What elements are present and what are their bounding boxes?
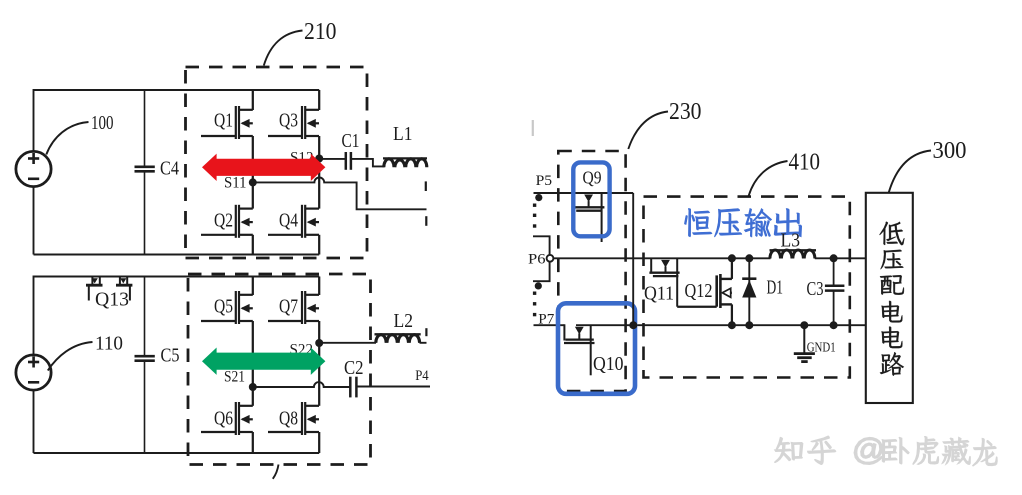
wire P5 line <box>534 192 634 194</box>
wire Q6 gate lead <box>201 431 236 433</box>
wire Q7 gate lead <box>268 320 302 322</box>
green bidirectional arrow <box>202 348 325 375</box>
svg-text:100: 100 <box>91 113 114 134</box>
label C4 <box>160 159 179 180</box>
label 230 <box>669 98 702 125</box>
diode D1 <box>742 258 756 325</box>
svg-text:C5: C5 <box>161 346 180 367</box>
label Q4 <box>279 210 298 232</box>
label Q13 <box>95 289 129 311</box>
wire Q6 drain from node S21 <box>252 387 254 406</box>
label P7 <box>538 312 555 328</box>
red bidirectional arrow <box>202 154 325 181</box>
svg-text:Q2: Q2 <box>214 210 233 232</box>
svg-text:D1: D1 <box>767 278 784 299</box>
leader below box 220 <box>273 465 279 479</box>
node Q12 drain junction <box>728 254 736 262</box>
wire Q7 source to node S22 <box>318 321 320 343</box>
wire bottom rail upper loop <box>34 254 320 256</box>
svg-text:P4: P4 <box>415 368 429 384</box>
transformer tap bracket upper <box>533 236 550 255</box>
label 300 leader <box>889 151 931 193</box>
label L2 <box>394 311 414 332</box>
watermark zhihu <box>775 436 998 466</box>
wire Q8 drain from node S22 <box>318 343 320 406</box>
label C2 <box>344 358 364 379</box>
node S11 <box>249 178 257 186</box>
wire Q12 source <box>731 304 733 325</box>
wire Q2 source to bottom rail <box>252 235 254 255</box>
label Q10 <box>593 353 624 375</box>
svg-text:C2: C2 <box>344 358 364 379</box>
label P4 <box>415 368 429 384</box>
inductor L2 <box>375 334 427 343</box>
svg-text:Q4: Q4 <box>279 210 298 232</box>
node GND1 junction <box>800 321 808 329</box>
svg-text:C4: C4 <box>160 159 179 180</box>
wire Q2 gate lead <box>201 234 236 236</box>
ground GND1 <box>794 325 815 361</box>
svg-text:L2: L2 <box>394 311 414 332</box>
svg-text:C3: C3 <box>807 279 824 300</box>
label C1 <box>342 131 360 152</box>
wire Q6 source to bottom rail <box>252 432 254 453</box>
wire Q4 gate lead <box>268 234 302 236</box>
dashed box 410 <box>644 197 850 378</box>
label Q3 <box>279 110 298 132</box>
node L3 output junction <box>830 254 838 262</box>
node Q9-Q10 junction <box>629 321 637 329</box>
svg-text:C1: C1 <box>342 131 360 152</box>
transformer polarity dot upper <box>535 194 542 201</box>
wire Q5 gate lead <box>201 320 236 322</box>
label C5 <box>161 346 180 367</box>
transistor Q8 <box>302 402 319 435</box>
transistor Q4 <box>302 205 319 238</box>
label Q1 <box>214 110 233 132</box>
label Q5 <box>214 296 233 318</box>
label 110 <box>95 334 123 355</box>
label GND1 <box>807 340 836 355</box>
wire bottom rail lower loop <box>34 452 320 454</box>
wire Q1 gate lead <box>201 135 236 137</box>
wire Q10 drain corner <box>563 324 565 340</box>
wire Q12 drain <box>731 258 733 279</box>
wire P6 rail segment <box>553 257 770 259</box>
label L3 <box>781 231 801 252</box>
label 410 leader <box>749 161 788 196</box>
wire Q7 drain to rail <box>318 277 320 296</box>
blue highlight box around Q10 <box>558 303 635 394</box>
node C3 bottom junction <box>830 321 838 329</box>
node D1 cathode junction <box>745 254 753 262</box>
svg-text:Q3: Q3 <box>279 110 298 132</box>
svg-text:L3: L3 <box>781 231 801 252</box>
cropped label fragment P2 <box>425 216 427 226</box>
label constant voltage output (blue) <box>684 208 801 237</box>
label 300 <box>933 137 967 164</box>
box 300 <box>866 193 913 403</box>
node P6 tap circle <box>547 255 554 262</box>
label 100 <box>91 113 114 134</box>
label S21 <box>224 368 245 385</box>
svg-text:Q5: Q5 <box>214 296 233 318</box>
label 110 leader <box>48 342 93 371</box>
dashed box 230 <box>558 151 625 391</box>
scan artifact line <box>532 120 534 136</box>
dashed box 220 <box>188 274 371 465</box>
svg-text:P6: P6 <box>528 251 546 267</box>
label Q2 <box>214 210 233 232</box>
wire L3 to box 300 <box>815 257 866 259</box>
node D1 anode junction <box>745 321 753 329</box>
svg-text:Q13: Q13 <box>95 289 129 311</box>
transistor Q6 <box>236 402 253 435</box>
label L1 <box>393 124 413 145</box>
wire left branch lower (source 110 leads) <box>33 276 35 454</box>
transformer winding dots lower <box>533 292 536 317</box>
svg-text:300: 300 <box>933 137 967 164</box>
svg-text:Q6: Q6 <box>214 408 233 430</box>
node Q12 source junction <box>728 321 736 329</box>
label low-voltage distribution circuit (box 300 text) <box>879 222 904 376</box>
transistor Q1 <box>236 106 253 139</box>
label P6 <box>528 251 546 267</box>
capacitor C2 <box>350 377 430 398</box>
label 210 leader <box>264 31 303 66</box>
wire Q8 source to bottom rail <box>318 432 320 453</box>
capacitor C5 <box>135 277 155 454</box>
wire Q4 source to bottom rail <box>318 235 320 255</box>
wire S11 output with hop <box>253 177 427 209</box>
wire Q4 drain from node S12 <box>318 159 320 209</box>
svg-text:Q1: Q1 <box>214 110 233 132</box>
transistor Q10 <box>564 325 595 375</box>
svg-text:S21: S21 <box>224 368 245 385</box>
wire S21 to C2 with hop <box>253 382 350 387</box>
wire Q1 drain to rail <box>252 90 254 110</box>
wire Q2 drain from node S11 <box>252 182 254 208</box>
transistor Q13 <box>86 277 132 301</box>
inductor L1 <box>383 158 427 167</box>
wire Q5 drain to rail <box>252 277 254 296</box>
label C3 <box>807 279 824 300</box>
label Q6 <box>214 408 233 430</box>
label 230 leader <box>628 112 668 150</box>
label Q12 <box>685 280 713 302</box>
svg-text:110: 110 <box>95 334 123 355</box>
transformer polarity dot lower <box>535 282 542 289</box>
voltage source 110 <box>16 355 51 390</box>
wire P7 rail to box 300 <box>576 324 866 326</box>
transformer tap bracket lower <box>533 262 550 282</box>
transistor Q7 <box>302 291 319 324</box>
label 210 <box>304 18 337 45</box>
node S21 <box>249 383 257 391</box>
svg-text:Q12: Q12 <box>685 280 713 302</box>
wire left branch upper (source 100 leads) <box>33 89 35 255</box>
label 410 <box>789 149 821 176</box>
transistor Q5 <box>236 291 253 324</box>
label S11 <box>224 174 247 191</box>
wire Q8 gate lead <box>268 431 302 433</box>
node S12 <box>315 155 323 163</box>
wire Q5 source to node S21 <box>252 321 254 387</box>
wire top rail lower loop <box>34 276 320 278</box>
capacitor C4 <box>135 90 155 255</box>
label S22 <box>290 341 314 358</box>
transistor Q2 <box>236 205 253 238</box>
svg-text:Q9: Q9 <box>583 167 602 187</box>
wire Q9 output vertical <box>632 193 634 325</box>
label S12 <box>290 149 314 166</box>
svg-text:410: 410 <box>789 149 821 176</box>
transistor Q3 <box>302 106 319 139</box>
inductor L3 <box>770 250 817 259</box>
wire Q3 source to node S12 <box>318 136 320 159</box>
blue highlight box around Q9 <box>573 162 609 236</box>
svg-text:210: 210 <box>304 18 337 45</box>
node S22 <box>315 339 323 347</box>
label P5 <box>536 173 553 189</box>
svg-text:P5: P5 <box>536 173 553 189</box>
svg-text:GND1: GND1 <box>807 340 836 355</box>
wire Q1 source to node S11 <box>252 136 254 182</box>
voltage source 100 <box>16 151 51 186</box>
label Q7 <box>279 296 298 318</box>
transistor Q11 <box>649 258 679 306</box>
svg-text:Q8: Q8 <box>279 408 298 430</box>
wire S22 to L2 <box>319 342 376 344</box>
transistor Q12 <box>717 274 732 308</box>
transistor Q9 <box>572 193 605 242</box>
transformer winding dots upper <box>533 204 536 228</box>
wire P7 rail segment <box>534 324 565 326</box>
wire Q3 gate lead <box>268 135 302 137</box>
svg-text:Q10: Q10 <box>593 353 624 375</box>
wire Q11 source to Q12 gate <box>677 306 717 308</box>
label 100 leader <box>46 122 88 155</box>
label D1 <box>767 278 784 299</box>
cropped label fragment P1 <box>425 181 427 191</box>
svg-text:Q11: Q11 <box>644 282 674 304</box>
wire Q3 drain to rail <box>318 90 320 110</box>
svg-text:Q7: Q7 <box>279 296 298 318</box>
svg-text:230: 230 <box>669 98 702 125</box>
capacitor C1 <box>319 152 384 170</box>
capacitor C3 <box>825 258 845 325</box>
svg-text:S11: S11 <box>224 174 247 191</box>
svg-text:L1: L1 <box>393 124 413 145</box>
label Q8 <box>279 408 298 430</box>
label Q11 <box>644 282 674 304</box>
wire top rail upper loop <box>34 89 320 91</box>
cropped label fragment P3 <box>425 328 427 336</box>
label Q9 <box>583 167 602 187</box>
dashed box 210 <box>186 67 368 258</box>
